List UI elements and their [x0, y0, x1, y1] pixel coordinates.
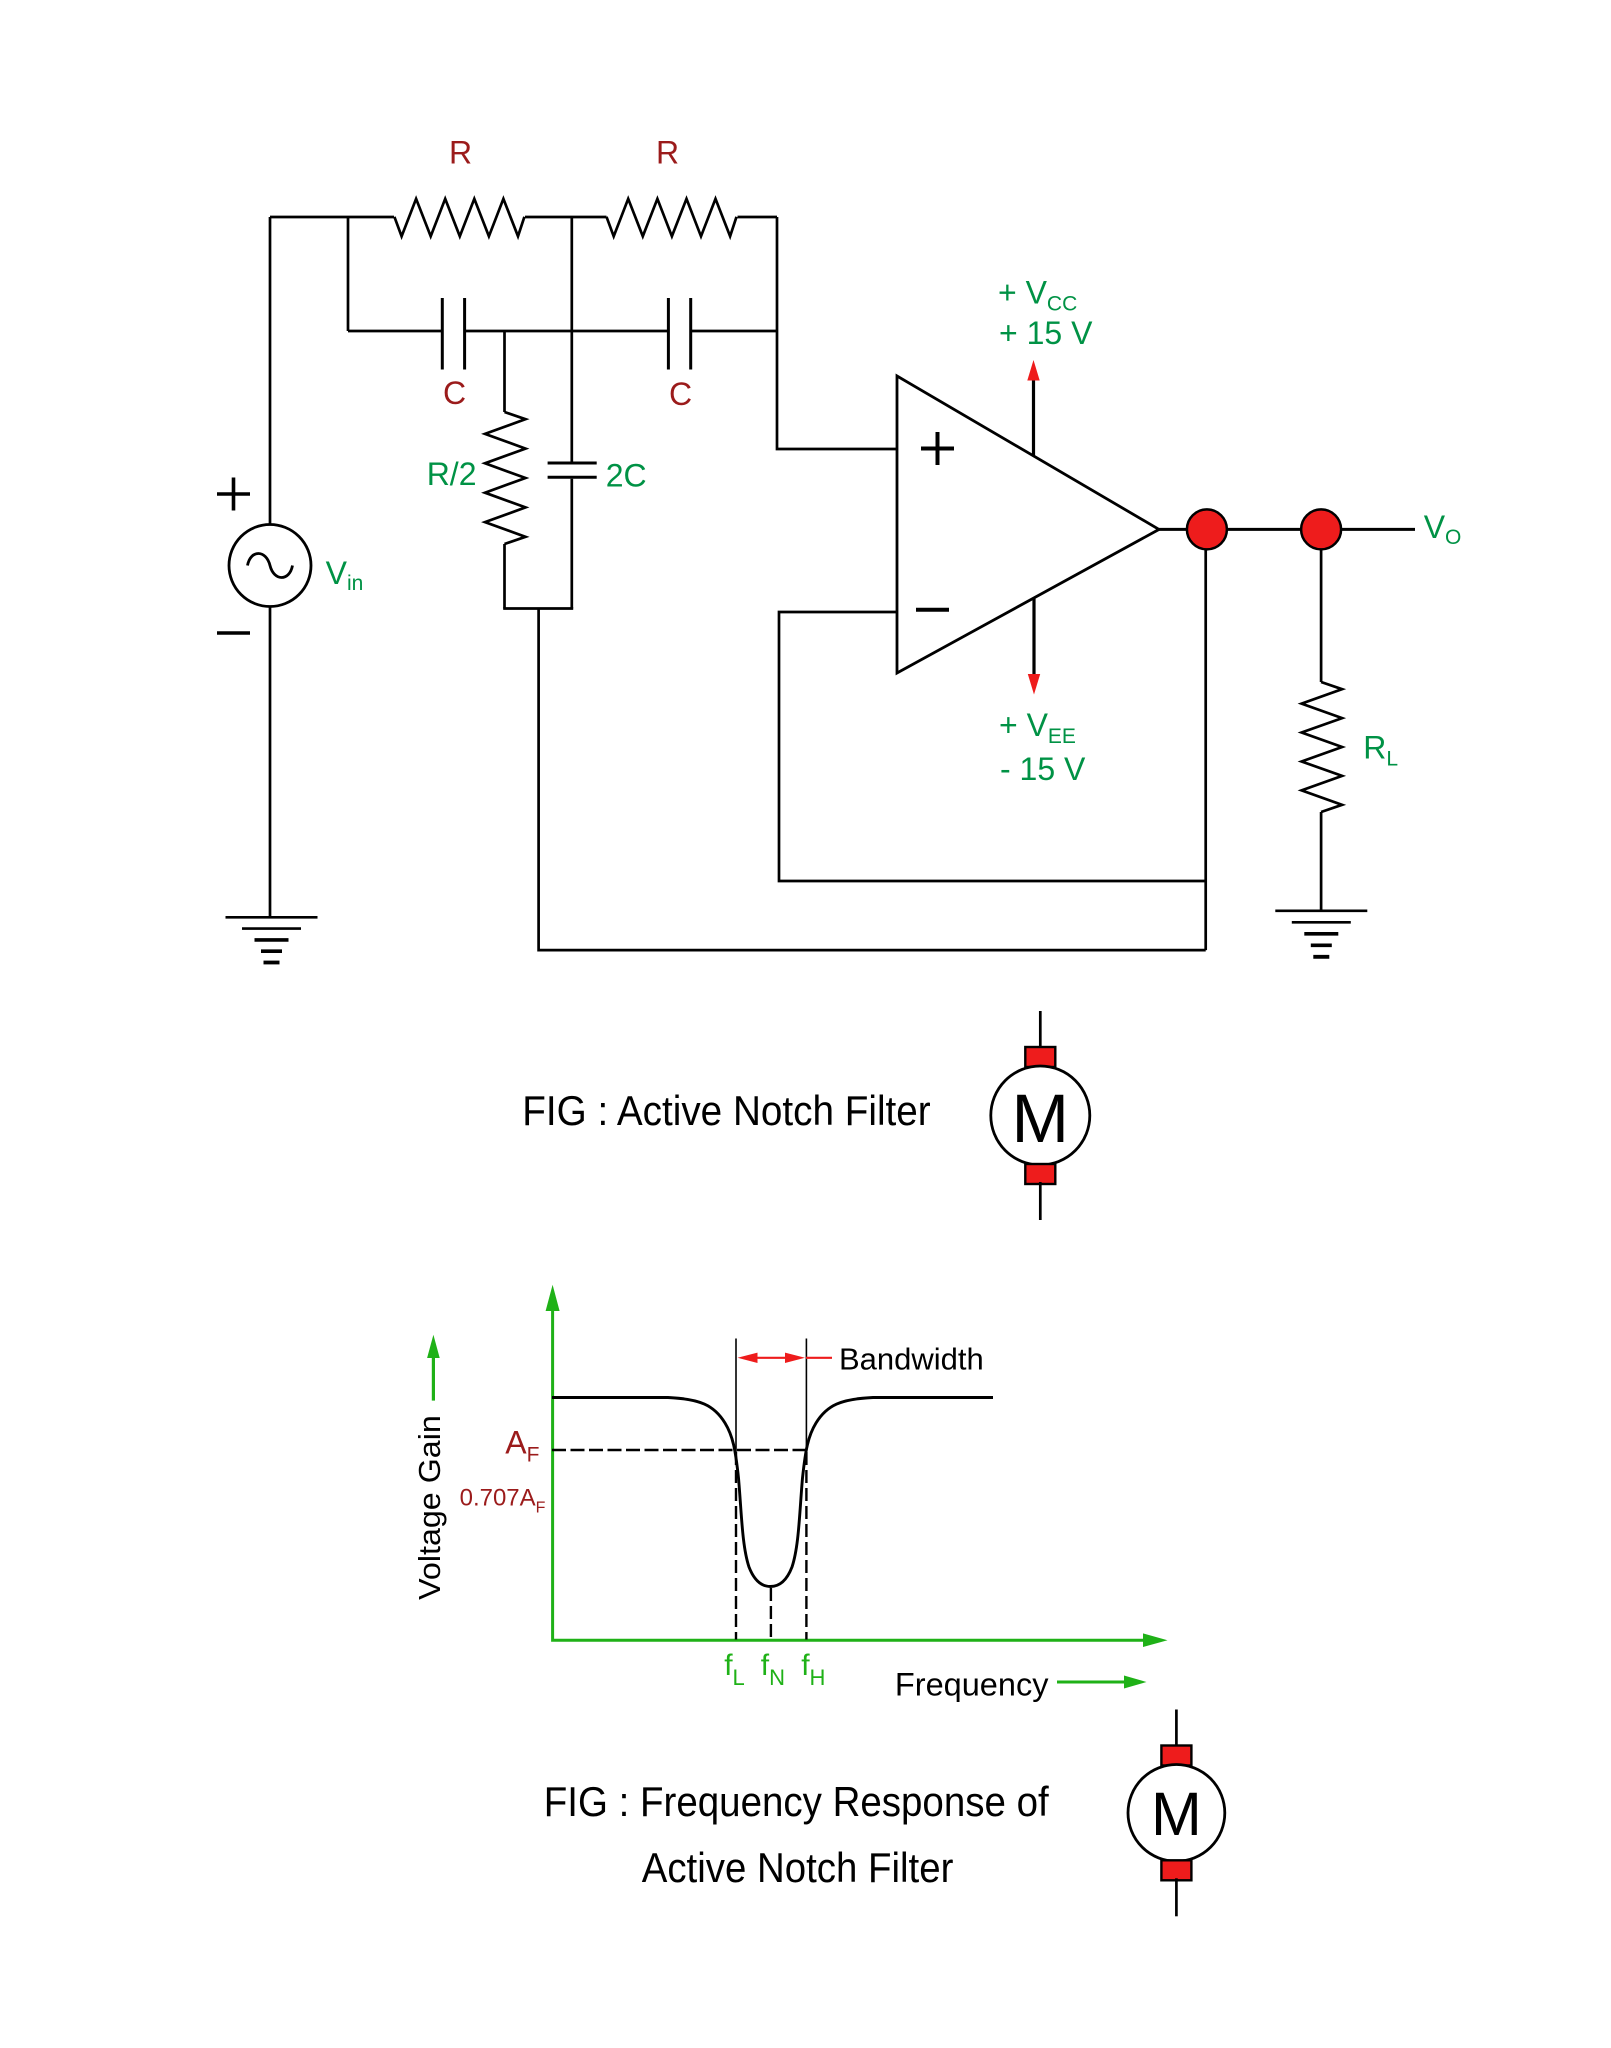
plus marker of op-amp [921, 432, 954, 465]
svg-text:R: R [449, 135, 472, 171]
wire: junction bar joining R/2 and 2C bottoms [503, 607, 573, 610]
capacitor C2 (right C of twin-T) [668, 298, 690, 370]
wire: mid node vertical (between R1,R2 down to 2C) [570, 217, 573, 462]
ground (input side) [226, 916, 318, 919]
svg-text:C: C [443, 375, 466, 411]
sine symbol inside source [248, 554, 293, 578]
wire: R/2 bottom lead [503, 544, 506, 609]
resistor R1 (left R of twin-T) [394, 199, 524, 237]
wire: left branch down from top rail to capacitor rail [347, 217, 350, 331]
Vee supply arrow [1032, 599, 1035, 675]
response curve (notch) [552, 1398, 993, 1587]
wire: feedback to inverting input [779, 612, 1206, 881]
voltage gain axis arrow (left) [432, 1356, 435, 1401]
wire: node B down to RL [1320, 529, 1323, 682]
wire: R/2 top lead from capacitor rail [503, 331, 506, 412]
wire: feedback vertical from output node down [1204, 529, 1207, 950]
svg-text:- 15 V: - 15 V [1000, 751, 1086, 787]
fH boundary line (solid top part) [805, 1339, 807, 1453]
wire: right branch of twin-T down to op-amp + input [777, 217, 897, 449]
resistor R/2 (shunt) [485, 412, 526, 544]
graph Y axis (Voltage Gain) [553, 1308, 1147, 1640]
wire: Vin to ground [269, 607, 272, 918]
AC source Vin [229, 525, 311, 607]
graph X axis arrowhead (Frequency) [1143, 1633, 1168, 1647]
dashed fH drop line [805, 1452, 807, 1640]
capacitor 2C (shunt) [548, 463, 597, 477]
svg-text:M: M [1151, 1780, 1202, 1848]
svg-text:Voltage Gain: Voltage Gain [412, 1415, 447, 1600]
ground (load side) [1275, 909, 1367, 912]
node A (output junction dot 1) [1187, 509, 1227, 549]
wire: 2C bottom lead [570, 479, 573, 609]
motor symbol M1 [1039, 1011, 1042, 1049]
wire: RL to ground [1320, 812, 1323, 911]
dashed fL drop line [735, 1452, 737, 1640]
svg-text:+ 15 V: + 15 V [999, 315, 1093, 351]
svg-text:M: M [1012, 1080, 1069, 1157]
fL boundary line (solid top part) [735, 1339, 737, 1453]
wire: bootstrap path from junction down and right to output node [539, 609, 1206, 951]
node B (output junction dot 2) [1301, 509, 1341, 549]
svg-text:FIG : Frequency Response of: FIG : Frequency Response of [544, 1778, 1049, 1825]
svg-text:2C: 2C [606, 458, 647, 494]
svg-text:Bandwidth: Bandwidth [839, 1341, 984, 1376]
svg-text:R: R [656, 135, 679, 171]
op-amp U1 triangle [897, 376, 1159, 673]
resistor RL (load) [1302, 682, 1343, 812]
Vcc supply arrow [1032, 379, 1035, 456]
capacitor C1 (left C of twin-T) [442, 298, 464, 370]
bandwidth arrow (red, double headed) [738, 1353, 833, 1363]
svg-text:Frequency: Frequency [895, 1667, 1049, 1703]
minus marker of op-amp [916, 608, 949, 612]
svg-text:FIG : Active Notch Filter: FIG : Active Notch Filter [522, 1087, 930, 1134]
plus sign of Vin [217, 478, 250, 511]
minus sign of Vin [217, 631, 250, 635]
dashed fN drop line [770, 1588, 772, 1640]
frequency arrow (green) [1057, 1681, 1127, 1684]
wire: top rail from input node to op-amp branch [270, 216, 777, 219]
wire: left vertical from top rail to Vin source [269, 217, 272, 525]
svg-text:Active Notch Filter: Active Notch Filter [642, 1844, 954, 1891]
motor symbol M2 [1175, 1710, 1178, 1748]
dashed AF level line [552, 1449, 806, 1451]
wire: capacitor rail (horizontal) [348, 330, 777, 333]
resistor R2 (right R of twin-T) [607, 199, 737, 237]
svg-text:C: C [669, 376, 692, 412]
wire: output from op-amp tip through nodes [1159, 528, 1415, 531]
svg-text:R/2: R/2 [427, 456, 477, 492]
